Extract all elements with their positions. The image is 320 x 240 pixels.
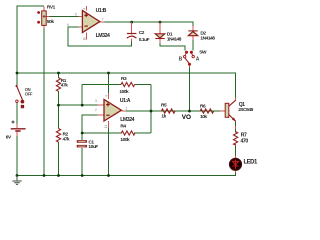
pin stub U1:B pin 5: [79, 15, 83, 17]
pin stub U1:A pin 3: [98, 104, 105, 106]
resistor R6 10k: [200, 109, 214, 113]
switch SW (SPDT A/B): [179, 50, 207, 66]
svg-text:7: 7: [102, 17, 104, 21]
wire hysteresis vertical into plus node: [81, 85, 83, 106]
potentiometer RV1 50k: [37, 5, 55, 26]
wire U1:A pin11 to ground rail: [108, 127, 110, 176]
svg-text:RV1: RV1: [47, 5, 56, 11]
svg-text:R5: R5: [161, 102, 167, 108]
wire U1:A pin2 to C1/R4 node: [82, 115, 98, 133]
pin stub D2 anode: [192, 36, 194, 40]
node ground rail R2: [57, 174, 60, 177]
pin stub D2 cathode: [192, 26, 194, 31]
svg-text:VO: VO: [182, 114, 191, 121]
svg-text:470: 470: [241, 138, 249, 144]
pin stub C2 top: [131, 22, 133, 35]
wire left vertical between switch and battery: [16, 103, 18, 125]
wire switch pole down to VO node: [189, 67, 191, 111]
pin stub RV1 bottom: [43, 25, 45, 28]
pin stub SW pole: [189, 65, 191, 68]
wire V+ rail y=73 with drop to Q1 collector: [17, 73, 236, 100]
node V+ left junction: [16, 72, 19, 75]
svg-text:R4: R4: [120, 124, 126, 130]
node C1 / R4 / pin2: [81, 132, 84, 135]
node ground rail C1: [81, 174, 84, 177]
svg-text:50k: 50k: [47, 19, 54, 25]
svg-text:1k: 1k: [161, 114, 166, 120]
wire R2 column: [58, 105, 60, 128]
pin stub D1 anode: [159, 22, 161, 34]
node ground rail RV1: [43, 174, 46, 177]
node VO switch pole: [188, 110, 191, 113]
svg-text:2SC945: 2SC945: [238, 107, 253, 113]
node U1:A pin4 on V+ rail: [107, 72, 110, 75]
wire RV1 bottom to ground rail: [43, 28, 45, 176]
svg-text:11: 11: [104, 125, 108, 129]
svg-text:LED1: LED1: [244, 159, 259, 165]
svg-text:LM324: LM324: [120, 117, 134, 123]
wire ground rail: [17, 175, 236, 177]
svg-text:0.1uF: 0.1uF: [139, 37, 150, 43]
svg-text:10uF: 10uF: [88, 144, 98, 150]
pin stub U1:A pin 1 output: [122, 110, 126, 112]
pin stub R7 bottom: [235, 144, 237, 146]
svg-text:LM324: LM324: [96, 33, 110, 39]
pin stub Q1 collector: [235, 98, 237, 101]
pin stub battery plus: [16, 124, 18, 128]
diode D1 1N4148: [155, 32, 181, 43]
resistor R2 47k: [56, 129, 60, 143]
svg-text:5: 5: [75, 12, 77, 16]
pin stub C2 bottom: [131, 39, 133, 42]
wire R1 column: [58, 73, 60, 78]
resistor R5 1k: [161, 109, 175, 113]
node U1:A output feedback: [150, 110, 153, 113]
pin stub U1:B pin 11 (GND): [86, 32, 88, 39]
svg-text:6: 6: [67, 23, 69, 27]
pin stub U1:B pin 6: [79, 26, 83, 28]
svg-text:1N4148: 1N4148: [200, 35, 215, 41]
node plus input / hysteresis: [81, 104, 84, 107]
capacitor C1 10uF electrolytic: [77, 140, 99, 151]
node ground rail U1:A pin11: [107, 174, 110, 177]
svg-text:1: 1: [126, 107, 128, 111]
capacitor C2 0.1uF: [127, 30, 150, 43]
wire U1:A pin4 to V+ rail: [108, 73, 110, 94]
pin stub U1:A pin 2: [98, 114, 105, 116]
wire feedback vertical R3/R4 to output node: [150, 85, 152, 134]
op-amp U1:A LM324: [95, 95, 135, 128]
pin stub RV1 wiper: [46, 15, 50, 17]
svg-text:3: 3: [95, 99, 97, 103]
svg-text:4: 4: [104, 95, 108, 97]
svg-text:11: 11: [82, 37, 86, 41]
node ground rail battery: [16, 174, 19, 177]
svg-text:2: 2: [95, 108, 97, 112]
svg-text:Q1: Q1: [239, 102, 246, 108]
wire left vertical upper (V+ column above switch): [16, 6, 18, 87]
pin stub RV1 top: [43, 7, 45, 12]
wire plus input node row R1/R2 divider to U1:A pin3: [59, 104, 99, 106]
svg-text:U1:B: U1:B: [96, 8, 107, 14]
wire top rail from battery branch to RV1 top: [17, 6, 236, 177]
node R1/R2 divider: [57, 104, 60, 107]
op-amp U1:B LM324: [67, 8, 110, 41]
resistor R7 470: [234, 132, 238, 146]
svg-text:OFF: OFF: [25, 91, 33, 96]
svg-text:R6: R6: [200, 104, 206, 110]
pin stub U1:B pin 4 (V+): [86, 6, 88, 11]
diode D2 1N4148: [188, 31, 215, 42]
transistor Q1 2SC945: [225, 100, 253, 121]
svg-text:1N4148: 1N4148: [167, 37, 182, 43]
svg-text:U1:A: U1:A: [120, 98, 131, 104]
resistor R1 47k: [56, 78, 60, 92]
wire D2 anode down to switch terminal A: [192, 40, 194, 51]
ground symbol: [12, 176, 21, 185]
wire C1 column to ground rail: [81, 133, 83, 140]
switch ON/OFF: [16, 85, 33, 108]
node D1 anode on U1:B output: [159, 21, 162, 24]
pin stub U1:A pin 11 (GND): [108, 121, 110, 128]
wire R4 row: [82, 132, 122, 134]
svg-text:R3: R3: [121, 76, 127, 82]
wire U1:A output line to Q1 base: [121, 110, 220, 112]
pin stub battery minus: [16, 132, 18, 136]
pin stub Q1 emitter / R7 top: [235, 126, 237, 129]
battery B1 6V: [6, 121, 26, 141]
wire D1 cathode to switch terminal B: [160, 43, 185, 51]
pin stub LED1 cathode: [235, 170, 237, 172]
pin stub LED1 anode: [235, 156, 237, 159]
svg-text:100k: 100k: [119, 89, 129, 95]
svg-text:4: 4: [83, 8, 87, 10]
pin stub U1:A pin 4 (V+): [108, 93, 110, 99]
wire U1:B pin6 feedback loop to C2 bottom: [68, 27, 132, 46]
resistor R3 100k: [121, 82, 135, 86]
node R1 top on V+ rail: [57, 72, 60, 75]
svg-text:C2: C2: [139, 30, 145, 36]
wire LED column: collector stub, R7, LED: [235, 122, 237, 133]
wire U1:B output line to D2 corner: [100, 22, 193, 26]
svg-text:100k: 100k: [120, 137, 130, 143]
pin stub U1:B pin 7 output: [100, 21, 105, 23]
svg-text:47k: 47k: [63, 137, 70, 143]
resistor R4 100k: [121, 131, 135, 135]
pin stubs (light red): [17, 6, 236, 173]
svg-text:47k: 47k: [61, 83, 68, 89]
pin stub Q1 base: [220, 110, 225, 112]
node junction dots: [16, 21, 191, 177]
wire battery minus to ground rail: [16, 136, 18, 177]
pin stub D1 cathode: [159, 39, 161, 43]
node C2 top on U1:B output: [130, 21, 133, 24]
svg-text:SW: SW: [199, 50, 207, 56]
wire R3 row: [82, 84, 121, 86]
wire RV1 wiper to U1:B pin5: [49, 15, 80, 17]
svg-text:10k: 10k: [200, 114, 207, 120]
LED1: [230, 158, 259, 170]
